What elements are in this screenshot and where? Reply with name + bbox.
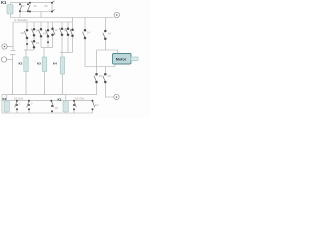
wire c34 mid <box>33 35 35 41</box>
terminal circle bottom right <box>114 94 119 99</box>
wire c34 lower to stub <box>33 47 35 50</box>
wire riser contact S1 to bus <box>19 12 21 18</box>
svg-text:13: 13 <box>22 4 25 8</box>
terminal circle left 1 <box>2 44 7 49</box>
contact c72 slant <box>70 29 73 35</box>
svg-text:1Ö: 1Ö <box>55 106 58 110</box>
relay K4 coil body <box>60 57 64 74</box>
svg-text:1Ö: 1Ö <box>21 31 24 35</box>
svg-text:K2: K2 <box>3 97 7 101</box>
svg-text:K3: K3 <box>58 98 62 102</box>
wire c72 lower <box>72 36 74 53</box>
svg-text:S. Schalter: S. Schalter <box>14 18 28 22</box>
svg-text:K3: K3 <box>37 62 41 66</box>
wire column c105 from main bus <box>104 18 106 31</box>
relay K1 coil wire top <box>11 3 53 5</box>
connection dots <box>16 2 107 113</box>
wire column c62 <box>61 22 63 29</box>
main bus wire <box>11 14 114 18</box>
wire coil K4 bottom drop <box>62 74 64 95</box>
svg-text:3: 3 <box>31 102 33 106</box>
contact b29 slant <box>27 101 29 107</box>
second bus wire <box>13 21 73 23</box>
wire contact b52 riser <box>51 111 53 113</box>
wire column c48 <box>47 22 49 30</box>
wire column c72 bridge <box>72 18 74 30</box>
wire coil K3 top riser <box>43 48 45 58</box>
wire c41 lower <box>40 36 42 48</box>
wire contact b92 riser <box>92 109 94 113</box>
contact c62 slant <box>60 28 63 34</box>
wire column c68 <box>67 22 69 29</box>
contact S1 slant <box>20 5 22 11</box>
contact c27 slant <box>24 31 27 38</box>
contact b17 slant <box>15 101 17 107</box>
wire column c34 <box>33 22 35 29</box>
wire drop c97 from rail50 <box>96 50 98 74</box>
wire coil K2 top riser <box>25 50 27 57</box>
wire drop c105b <box>104 67 106 75</box>
contact c97 slant <box>94 76 97 82</box>
svg-text:1/3 Schl.: 1/3 Schl. <box>14 97 24 101</box>
motor shaft <box>131 57 138 61</box>
motor body <box>113 54 132 65</box>
wire contact b74 riser <box>73 109 75 113</box>
wire terminal bar1 <box>11 49 16 51</box>
wire K2b coil riser <box>6 95 8 101</box>
relay K3 coil body <box>42 57 46 72</box>
wire bottom left edge <box>1 95 3 113</box>
wire stub K3 feed <box>41 47 53 49</box>
contact c85 slant <box>83 32 86 38</box>
svg-text:1/3: 1/3 <box>36 41 40 45</box>
svg-text:14: 14 <box>34 4 38 8</box>
wire contact b17 riser <box>16 109 18 113</box>
contact c41 slant <box>39 30 42 36</box>
wire bottom feeder rail L1 <box>2 94 97 96</box>
contact c105 slant <box>103 33 106 39</box>
svg-text:1: 1 <box>19 102 21 106</box>
wire bottom rail B <box>2 112 93 114</box>
terminal circle right of bus <box>114 12 119 17</box>
wire K3b coil riser <box>65 95 67 101</box>
wire c105b lower to terminal <box>105 82 113 97</box>
contact b52 slant <box>52 101 54 107</box>
wire terminal bar2 <box>10 54 16 56</box>
wire coil K2 bottom drop <box>25 72 27 95</box>
svg-text:14: 14 <box>36 29 39 33</box>
wire column c27 <box>26 22 28 30</box>
wire c27 lower <box>26 38 28 50</box>
wire bottom rail A <box>2 100 93 102</box>
svg-text:14: 14 <box>55 28 58 32</box>
contact b92 slant <box>93 101 95 107</box>
wire stub feed K2 <box>24 49 34 51</box>
wire column c41 <box>40 22 42 29</box>
svg-text:1Ö: 1Ö <box>99 74 102 78</box>
wire K2b coil bottom <box>6 112 8 115</box>
relay K3b coil body (bottom) <box>63 101 68 112</box>
terminal circle left 2 <box>1 57 6 62</box>
svg-text:1/3 Öffn.: 1/3 Öffn. <box>75 97 85 101</box>
svg-text:04: 04 <box>45 4 49 8</box>
svg-text:K2: K2 <box>19 62 23 66</box>
wire rail to motor top <box>97 50 118 54</box>
wire riser x41 loop to bus <box>40 12 42 18</box>
contact c52 slant <box>53 29 56 35</box>
wire c85 down to lower rail <box>85 38 115 67</box>
svg-text:K4: K4 <box>53 62 57 66</box>
wire bar2 down to bottom block <box>12 55 14 95</box>
wire column c85 <box>84 18 86 31</box>
relay K2b coil body (bottom) <box>4 101 9 112</box>
contact c48 slant <box>46 30 49 36</box>
contact slants <box>15 1 106 108</box>
wire c52 lower <box>52 35 54 48</box>
contact c34 slant2 <box>32 41 35 47</box>
wire c62 lower <box>61 35 63 53</box>
svg-text:K1: K1 <box>43 32 47 36</box>
relay K1 coil body <box>7 5 13 15</box>
svg-text:14: 14 <box>87 31 90 35</box>
wire c68 lower <box>67 35 69 53</box>
wire K3b coil bottom <box>65 112 67 115</box>
contact c105b slant <box>103 76 106 82</box>
wire stub K4 feed <box>60 52 73 54</box>
contact c68 slant <box>66 28 69 34</box>
svg-text:1Ö: 1Ö <box>95 103 98 107</box>
svg-text:14: 14 <box>108 32 111 36</box>
wire motor bottom riser <box>114 64 116 67</box>
contact c34 slant1 <box>32 29 35 35</box>
contact loop right slants <box>52 1 55 12</box>
svg-text:1Ö: 1Ö <box>107 74 110 78</box>
contact b74 slant <box>74 101 76 107</box>
wire coil K4 top riser <box>61 53 63 58</box>
wire right edge of loop <box>51 3 53 12</box>
wire column c52 <box>52 22 54 29</box>
wire c97 lower <box>96 82 98 95</box>
wire circle1 to bar <box>7 46 13 48</box>
wire lower parallel K1 branch <box>20 11 52 13</box>
contact S2 slant <box>28 5 30 11</box>
relay K2 coil body <box>24 57 28 72</box>
wire coil K3 bottom drop <box>44 72 46 95</box>
wire circle2 stub <box>7 59 13 61</box>
wire contact b29 riser <box>28 109 30 113</box>
svg-text:Motor: Motor <box>116 57 127 61</box>
wire left drop to terminal bar1 <box>12 22 14 50</box>
svg-text:K1: K1 <box>1 0 7 5</box>
wire c105 down to rail <box>104 39 106 50</box>
wire c48 lower <box>47 36 49 48</box>
